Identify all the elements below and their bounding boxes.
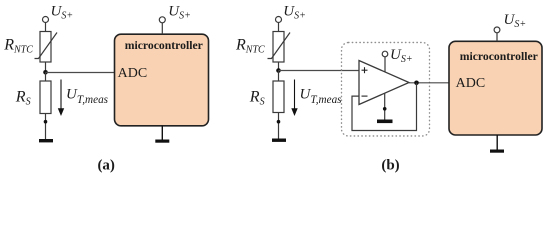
arrow UT,meas (b) <box>291 80 297 117</box>
wire junction to RS (b) <box>278 71 280 82</box>
supply terminal US+ (b divider) <box>276 17 282 23</box>
dashed buffer box (b) <box>342 43 430 137</box>
resistor RS (a) <box>40 81 51 114</box>
node below RS (a) <box>44 120 48 124</box>
label RS (a) <box>15 89 31 108</box>
node on op-amp ground wire (b) <box>383 107 387 111</box>
svg-text:RS: RS <box>249 89 265 108</box>
thermistor RNTC (a) <box>35 32 58 63</box>
node below RS (b) <box>277 120 281 124</box>
label RNTC (a) <box>3 37 33 56</box>
svg-text:US+: US+ <box>390 47 413 65</box>
label RNTC (b) <box>235 37 265 56</box>
caption (a) <box>97 158 115 174</box>
wire RNTC to junction (b) <box>278 62 280 71</box>
svg-text:RNTC: RNTC <box>235 37 265 56</box>
wire mc to ground (b) <box>496 135 498 150</box>
label US+ (b divider) <box>283 4 306 22</box>
label US+ (a mc) <box>168 4 191 22</box>
node junction (a) <box>43 70 48 75</box>
ground (a mc) <box>155 140 169 143</box>
thermistor RNTC (b) <box>268 32 291 63</box>
svg-text:UT,meas: UT,meas <box>300 87 343 107</box>
node op-amp output junction (b) <box>414 81 419 86</box>
wire junction to ADC (a) <box>46 72 115 74</box>
label US+ (b op-amp) <box>390 47 413 65</box>
wire mc top terminal (a) <box>161 23 163 34</box>
svg-text:US+: US+ <box>51 4 74 22</box>
microcontroller U3 (b) <box>449 41 542 135</box>
svg-text:(a): (a) <box>97 158 115 174</box>
ground (b divider) <box>272 139 286 142</box>
svg-text:US+: US+ <box>168 4 191 22</box>
svg-text:RS: RS <box>15 89 31 108</box>
wire terminal to RNTC (b) <box>278 23 280 32</box>
ground (b mc) <box>490 150 504 153</box>
ground (b op-amp) <box>377 120 393 124</box>
supply terminal US+ (b mc) <box>494 27 500 33</box>
label US+ (b mc) <box>504 12 527 30</box>
wire RS to ground (a) <box>45 114 47 140</box>
svg-text:US+: US+ <box>504 12 527 30</box>
svg-text:ADC: ADC <box>456 76 486 91</box>
svg-text:US+: US+ <box>283 4 306 22</box>
resistor RS (b) <box>273 81 284 113</box>
feedback wire output to inverting input (b) <box>352 83 417 131</box>
svg-text:microcontroller: microcontroller <box>125 39 203 52</box>
wire mc top terminal (b) <box>496 33 498 42</box>
label UT,meas (b) <box>300 87 343 107</box>
op-amp power terminal US+ (b) <box>382 51 388 72</box>
svg-text:(b): (b) <box>381 158 399 174</box>
supply terminal US+ (a divider) <box>43 17 49 23</box>
wire RNTC to junction (a) <box>45 62 47 72</box>
arrow UT,meas (a) <box>58 80 64 117</box>
svg-text:ADC: ADC <box>118 66 148 81</box>
wire junction to op-amp + input (b) <box>279 70 360 72</box>
ground (a divider) <box>39 139 53 142</box>
wire mc to ground (a) <box>161 126 163 140</box>
microcontroller U1 (a) <box>115 34 209 126</box>
op-amp U2 (b) <box>359 61 409 105</box>
wire junction to RS (a) <box>45 72 47 81</box>
label US+ (a divider) <box>51 4 74 22</box>
label UT,meas (a) <box>66 87 109 107</box>
svg-text:UT,meas: UT,meas <box>66 87 109 107</box>
node junction (b) <box>276 68 281 73</box>
svg-text:microcontroller: microcontroller <box>460 50 538 63</box>
label RS (b) <box>249 89 265 108</box>
svg-text:RNTC: RNTC <box>3 37 33 56</box>
wire RS to ground (b) <box>278 113 280 139</box>
wire op-amp output to ADC (b) <box>409 82 449 84</box>
supply terminal US+ (a mc) <box>159 17 165 23</box>
caption (b) <box>381 158 399 174</box>
op-amp ground wire (b) <box>384 93 386 119</box>
wire terminal to RNTC (a) <box>45 23 47 32</box>
